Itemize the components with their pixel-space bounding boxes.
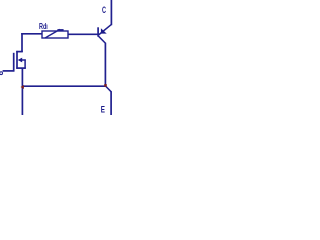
transistor Q1 emitter arrow — [101, 28, 107, 33]
transistor Q1 collector diagonal (to E side) — [99, 36, 106, 43]
resistor Rdi body — [42, 31, 68, 38]
MOSFET M1 gate line — [13, 53, 15, 72]
node E lead vertical — [110, 91, 112, 115]
svg-text:Rdı: Rdı — [39, 22, 48, 31]
svg-text:C: C — [102, 5, 106, 15]
wire top: drain lead vertical — [21, 33, 23, 52]
svg-text:E: E — [101, 105, 105, 115]
resistor Rdi preset T-bar — [57, 29, 63, 31]
node C lead vertical — [110, 0, 112, 25]
wire: collector vertical — [104, 43, 106, 86]
MOSFET M1 drain stub — [16, 51, 23, 53]
MOSFET M1 source stub — [16, 67, 26, 69]
MOSFET M1 source-body vertical — [24, 59, 26, 68]
resistor Rdi preset diagonal — [45, 29, 60, 38]
MOSFET M1 body line — [21, 59, 26, 61]
wire: bottom horizontal — [22, 85, 106, 87]
MOSFET M1 source lead — [21, 68, 23, 115]
MOSFET M1 gate wire — [3, 70, 15, 72]
junction dot right — [104, 84, 107, 87]
transistor Q1 emitter diagonal (to C) — [99, 24, 112, 35]
MOSFET M1 channel line — [16, 51, 18, 69]
terminal G circle — [0, 72, 3, 75]
MOSFET M1 body arrow — [18, 58, 23, 63]
transistor Q1 base bar — [97, 27, 99, 36]
wire top horizontal left (drain to resistor) — [21, 33, 42, 35]
wire: corner diagonal to E lead — [106, 86, 112, 92]
wire: resistor to transistor base — [68, 33, 98, 35]
junction arrow left — [21, 85, 24, 89]
